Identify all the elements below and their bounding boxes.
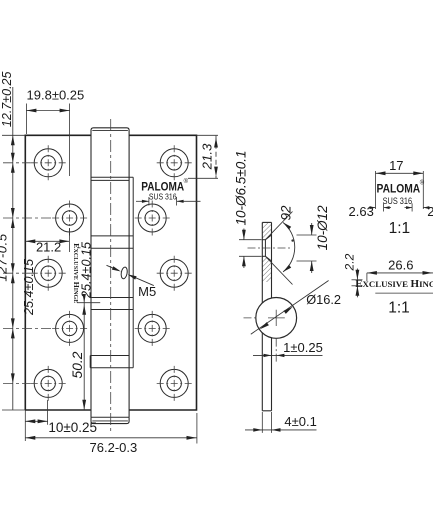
svg-text:10-Ø12: 10-Ø12 <box>315 205 330 251</box>
svg-text:Ø16.2: Ø16.2 <box>306 292 341 307</box>
svg-text:12.7±0.25: 12.7±0.25 <box>0 71 14 127</box>
svg-text:10±0.25: 10±0.25 <box>48 420 97 435</box>
svg-text:127-0.5: 127-0.5 <box>0 233 10 281</box>
svg-text:M5: M5 <box>138 284 156 299</box>
svg-text:92: 92 <box>279 205 294 221</box>
svg-text:1:1: 1:1 <box>388 300 410 317</box>
svg-text:®: ® <box>420 179 425 186</box>
svg-text:21.3: 21.3 <box>199 143 214 170</box>
svg-text:2.63: 2.63 <box>427 204 433 219</box>
svg-text:SUS 316: SUS 316 <box>383 196 413 206</box>
svg-text:1:1: 1:1 <box>389 220 411 237</box>
svg-text:4±0.1: 4±0.1 <box>284 414 316 429</box>
svg-text:76.2-0.3: 76.2-0.3 <box>90 440 138 455</box>
svg-text:17: 17 <box>389 158 403 173</box>
svg-text:PALOMA: PALOMA <box>377 182 421 196</box>
svg-text:®: ® <box>184 178 189 185</box>
svg-text:EXCLUSIVE HINGE: EXCLUSIVE HINGE <box>355 278 433 290</box>
svg-text:19.8±0.25: 19.8±0.25 <box>27 88 85 103</box>
svg-text:2.63: 2.63 <box>349 204 374 219</box>
svg-text:50.2: 50.2 <box>70 351 85 378</box>
svg-text:26.6: 26.6 <box>388 258 413 273</box>
svg-text:25.4±0.15: 25.4±0.15 <box>80 241 94 299</box>
svg-text:25.4±0.15: 25.4±0.15 <box>22 258 36 316</box>
svg-text:SUS 316: SUS 316 <box>149 192 177 201</box>
svg-text:2.2: 2.2 <box>343 253 357 271</box>
svg-text:1±0.25: 1±0.25 <box>283 340 323 355</box>
svg-text:10-Ø6.5±0.1: 10-Ø6.5±0.1 <box>234 151 249 226</box>
svg-text:21.2: 21.2 <box>36 239 61 254</box>
